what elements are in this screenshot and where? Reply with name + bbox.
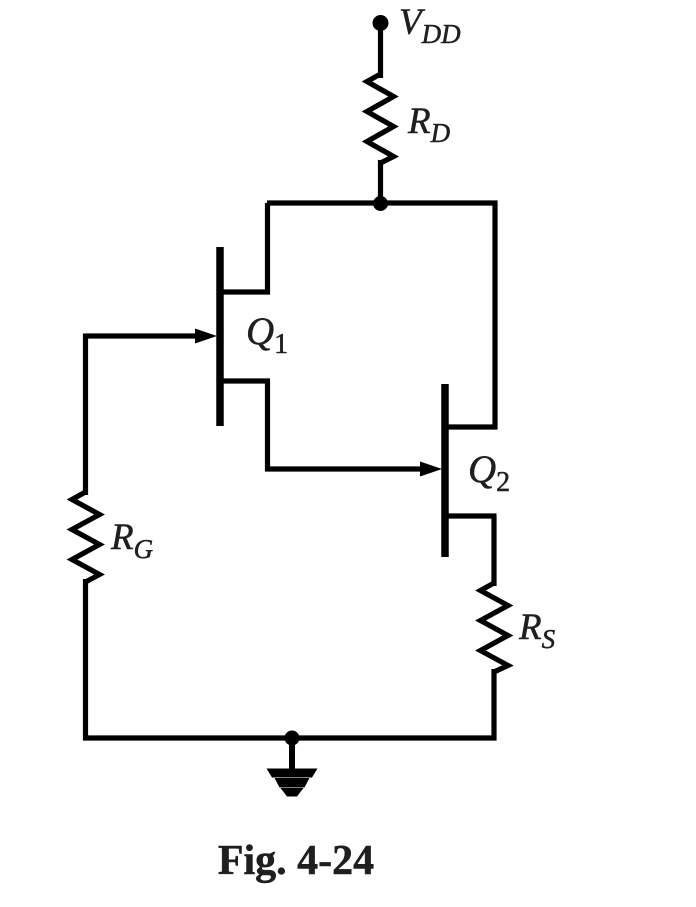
ground symbol [267,769,318,797]
svg-text:RD: RD [407,101,451,148]
wire top rail [267,200,498,205]
wire Q2 source horizontal [446,513,497,518]
svg-text:RG: RG [110,517,153,564]
wire Q2 drain horizontal [446,424,498,429]
resistor RS [481,583,509,672]
wire bottom rail [83,735,497,740]
transistor Q1 [216,247,224,426]
node drain junction dot [373,196,388,211]
wire Q1 gate [86,333,203,338]
wire right rail [492,201,497,430]
svg-text:RS: RS [518,607,556,654]
wire RD to node [378,160,383,206]
wire VDD to RD [378,23,383,78]
transistor Q2 gate arrowhead [420,462,442,477]
wire Q1 drain vertical [265,203,270,295]
wire Q1 drain horizontal [221,289,270,294]
wire Q2 gate [265,466,426,471]
svg-text:Q1: Q1 [246,310,288,360]
wire RS to bottom rail [491,669,496,741]
transistor Q1 gate arrowhead [195,329,217,344]
svg-text:VDD: VDD [399,2,461,49]
svg-text:Fig. 4-24: Fig. 4-24 [218,838,374,884]
wire left rail upper [83,334,88,496]
transistor Q2 [441,384,449,557]
resistor RG [72,492,100,582]
wire left rail lower [83,579,88,741]
wire Q1 source horizontal [221,378,270,383]
node ground junction dot [285,731,300,746]
wire Q1 source vertical [265,381,270,472]
node VDD terminal dot [373,15,389,31]
wire ground stub [289,738,295,770]
resistor RD [367,74,394,163]
svg-text:Q2: Q2 [468,448,510,498]
wire Q2 source vertical [491,516,496,586]
